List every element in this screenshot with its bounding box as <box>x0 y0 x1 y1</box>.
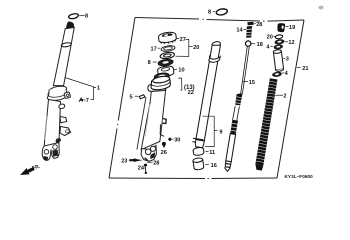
leader for label 1 <box>65 78 96 88</box>
slider ear (left tab) <box>148 85 155 92</box>
label 2 <box>275 94 283 96</box>
oil seal (13) <box>154 72 169 80</box>
piston 3 <box>273 49 284 71</box>
label 27 <box>177 38 180 40</box>
damper piston (rod top) <box>246 26 252 38</box>
fork assembly 1 : bosses on slider <box>58 103 65 109</box>
rod rebound spring upper <box>235 93 242 105</box>
O-ring 8 (top center) <box>216 8 228 16</box>
svg-text:12: 12 <box>288 40 294 46</box>
washer 17 <box>161 45 176 52</box>
svg-text:8: 8 <box>148 60 151 66</box>
rod middle <box>233 106 240 121</box>
slider rib line <box>137 97 146 149</box>
label 11 <box>205 151 208 153</box>
svg-text:17: 17 <box>151 46 157 52</box>
leader 7 <box>84 99 86 101</box>
svg-text:8: 8 <box>208 10 211 16</box>
svg-text:19: 19 <box>289 25 295 31</box>
svg-text:8: 8 <box>85 13 88 19</box>
bolt 30 <box>168 137 172 141</box>
label 21 <box>297 67 301 69</box>
washer 12 <box>275 39 285 45</box>
frame border (parallelogram) <box>109 18 304 179</box>
svg-text:30: 30 <box>174 137 180 143</box>
scan speck (top right) <box>318 6 323 10</box>
svg-text:14: 14 <box>236 27 243 33</box>
fork assembly 1 : top cap <box>66 21 74 28</box>
ring 18 <box>246 41 251 46</box>
svg-text:23: 23 <box>121 159 127 165</box>
svg-text:28: 28 <box>256 22 262 28</box>
ring 4 (lower) <box>272 72 282 78</box>
svg-text:16: 16 <box>211 163 217 169</box>
O-ring (stack, part of 20) <box>160 52 175 60</box>
svg-text:21: 21 <box>302 66 308 72</box>
fork assembly 1 : tube band <box>61 42 72 47</box>
svg-text:27: 27 <box>180 37 186 43</box>
svg-text:10: 10 <box>178 68 184 74</box>
fork assembly 1 : axle holder <box>42 146 51 160</box>
slider lower leader line <box>160 125 164 137</box>
svg-text:18: 18 <box>257 42 263 48</box>
tube 9 bottom bands <box>193 138 204 140</box>
svg-text:26: 26 <box>161 150 167 156</box>
svg-text:20: 20 <box>267 35 273 41</box>
svg-text:3: 3 <box>286 56 289 62</box>
svg-text:5: 5 <box>130 95 133 101</box>
svg-text:7: 7 <box>86 98 89 104</box>
slider body <box>141 89 166 150</box>
slider axle holder <box>141 146 156 162</box>
rod rebound spring lower <box>230 120 238 135</box>
damper rod 15 <box>241 46 250 94</box>
slider boss right <box>162 119 166 124</box>
rubber cap 19 <box>277 23 285 32</box>
guide bushing 11 <box>193 147 204 156</box>
screw 7 <box>80 99 83 100</box>
tube 9 top band <box>209 55 220 62</box>
fork assembly 1 : boot clamp collar <box>47 85 70 100</box>
svg-text:24: 24 <box>138 166 145 172</box>
O-ring 8 (left fork top) <box>68 13 79 20</box>
fork assembly 1 : bolt on slider <box>55 137 62 143</box>
svg-text:22: 22 <box>188 90 194 96</box>
fork spring 2 <box>255 78 277 170</box>
fork assembly 1 : slider body <box>44 100 60 147</box>
label 28 (lower) <box>148 161 153 163</box>
svg-text:2: 2 <box>283 93 286 99</box>
oil lock piece 16 <box>193 157 204 170</box>
slider 13/22 : neck <box>148 75 170 91</box>
svg-text:11: 11 <box>209 150 215 156</box>
fork cap 27 <box>158 31 177 45</box>
label 15 <box>243 80 249 82</box>
bracket (13) 22 <box>178 78 182 90</box>
FR. arrow <box>20 166 34 176</box>
rod bottom tip <box>225 161 231 171</box>
bracket 9 <box>203 116 215 146</box>
fork assembly 1 : upper tube <box>53 27 74 85</box>
spacer collar 10 <box>157 65 174 77</box>
fork tube 9 <box>192 41 221 148</box>
label 16 <box>205 164 209 166</box>
bolt 26 <box>162 142 166 146</box>
label 10 <box>174 68 177 70</box>
svg-text:15: 15 <box>249 80 255 86</box>
piston ring 28 (top) <box>247 22 254 26</box>
rod lower tube <box>226 134 236 162</box>
leader to label 8 <box>79 14 85 16</box>
svg-text:20: 20 <box>193 45 199 51</box>
svg-text:KY3L–F0600: KY3L–F0600 <box>285 174 314 179</box>
svg-text:28: 28 <box>153 161 159 167</box>
svg-text:9: 9 <box>219 130 222 136</box>
bracket 20 <box>176 39 189 56</box>
svg-text:1: 1 <box>97 86 100 92</box>
backup ring 8 <box>158 59 174 67</box>
